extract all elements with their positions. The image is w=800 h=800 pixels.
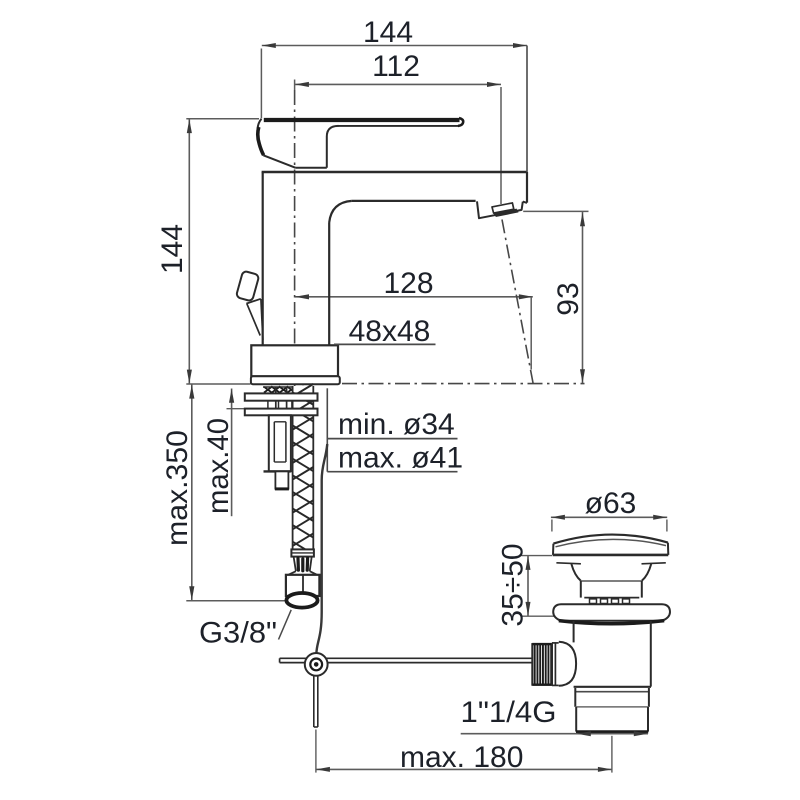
side knob collar line xyxy=(246,299,260,304)
braided supply hose xyxy=(293,384,314,554)
overflow slot band xyxy=(584,598,639,604)
aerator mesh line a xyxy=(494,209,517,214)
dimension 144 top: line xyxy=(262,45,527,47)
spout underside fillet xyxy=(329,201,352,223)
dimension max.40: top arrow xyxy=(229,389,234,403)
drain neck right xyxy=(642,564,651,581)
dimension max180: line xyxy=(316,768,612,770)
sleeve inner bottom tick xyxy=(274,461,286,463)
hole labels vertical leader xyxy=(326,388,328,471)
drain cap washer left xyxy=(556,563,581,564)
handle neck right edge xyxy=(327,126,339,168)
dimension max.350: bottom extension line xyxy=(186,600,296,602)
label max ø41 underline xyxy=(327,471,457,473)
dimension 112: right arrow xyxy=(487,82,501,87)
dimension 144 top: right arrow xyxy=(513,43,527,48)
pop-up rod lower cap xyxy=(314,726,318,728)
mounting washer bar 1 xyxy=(245,393,318,400)
hose nipple left edge xyxy=(294,557,296,572)
side knob body xyxy=(236,271,259,302)
tail lower left xyxy=(575,707,577,732)
handle lobe thick crescent xyxy=(258,127,264,155)
tail upper left xyxy=(574,688,576,707)
stud stub xyxy=(275,471,288,488)
handle blade underside line xyxy=(338,125,459,127)
svg-text:48x48: 48x48 xyxy=(349,315,431,348)
pop-up horizontal rod bottom xyxy=(280,662,533,664)
sleeve inner top tick xyxy=(274,421,286,423)
dimension 35÷50: top arrow xyxy=(526,556,531,570)
tail heavy bottom xyxy=(576,730,648,733)
dimension 93: top extension line xyxy=(523,210,588,212)
dimension 35÷50: bottom arrow xyxy=(526,602,531,616)
tail lower right xyxy=(647,707,649,732)
nut shoulder left xyxy=(288,571,296,575)
drain cylinder right xyxy=(641,581,643,598)
svg-text:128: 128 xyxy=(383,267,433,300)
mounting stud upper right edge xyxy=(286,387,288,422)
dimension 128: line xyxy=(295,296,533,298)
handle blade tip cap xyxy=(458,118,463,126)
dimension max.350: top extension line xyxy=(186,383,250,385)
knob collar bottom xyxy=(552,684,559,686)
body right edge below fillet xyxy=(328,223,330,346)
drain flange heavy bottom arc xyxy=(559,621,664,624)
pop-up tee joint ring xyxy=(310,659,322,671)
water stream dash-dot xyxy=(502,220,534,387)
svg-text:ø63: ø63 xyxy=(585,487,637,520)
svg-text:max.350: max.350 xyxy=(161,430,194,546)
gap vertical c xyxy=(291,401,293,409)
aerator corner to spout xyxy=(523,202,527,203)
dimension 144 left: top arrow xyxy=(187,119,192,133)
dimension 112: right extension line xyxy=(500,87,502,204)
dimension 1-1/4G: line xyxy=(461,733,648,735)
dimension 128: right extension tick xyxy=(530,297,532,370)
dimension ø63: left arrow xyxy=(551,515,565,520)
body top line xyxy=(262,171,527,173)
tail thread line xyxy=(576,706,648,708)
dimension 112: line xyxy=(295,83,501,85)
spout right edge heavy part xyxy=(526,172,528,203)
hose nut facet line xyxy=(302,575,304,596)
side knob stem right xyxy=(261,299,263,340)
dimension 144 top: left extension line xyxy=(260,49,262,119)
svg-text:35÷50: 35÷50 xyxy=(496,543,529,626)
handle blade thick top line xyxy=(264,118,460,122)
dimension max.350: top arrow xyxy=(189,385,194,399)
base block 48x48 xyxy=(251,345,338,376)
dimension 144 left: top extension line xyxy=(186,118,259,120)
svg-text:max. ø41: max. ø41 xyxy=(338,441,463,474)
dimension max.40: line xyxy=(231,389,233,517)
drain knurled knob xyxy=(532,644,552,685)
drain body left edge xyxy=(573,621,575,643)
pop-up rod lower right xyxy=(317,676,319,727)
dimension 128: left arrow xyxy=(295,294,309,299)
dimension 93: bottom arrow xyxy=(580,369,585,383)
drain cap left edge xyxy=(552,544,554,555)
aerator mesh line b xyxy=(496,212,519,217)
crushed seal top line xyxy=(263,386,313,388)
dimension max180: right extension xyxy=(611,736,613,773)
mounting sleeve xyxy=(269,415,291,471)
handle lobe left edge xyxy=(258,119,264,155)
hose nut bottom ellipse xyxy=(286,593,317,608)
dimension max180: left extension xyxy=(315,730,317,773)
drain cap inner arc xyxy=(556,539,667,546)
drain neck left xyxy=(571,564,580,581)
svg-text:max. 180: max. 180 xyxy=(400,741,523,774)
body left edge xyxy=(262,172,264,345)
dimension 93: line xyxy=(582,212,584,383)
drain body bottom xyxy=(574,686,651,688)
pop-up tee joint outer xyxy=(305,653,328,676)
pop-up rod upper xyxy=(316,444,327,654)
dimension max.350: line xyxy=(191,384,193,600)
sleeve inner right xyxy=(285,422,287,462)
dimension 35÷50: top extension xyxy=(522,555,553,557)
dimension 112: left arrow xyxy=(295,82,309,87)
spout underside line xyxy=(352,200,476,202)
hose nut G3/8 xyxy=(286,575,320,596)
faucet centerline dash-dot xyxy=(294,90,296,390)
dimension 144 top: left arrow xyxy=(262,43,276,48)
hose nipple bead b xyxy=(301,559,304,571)
mounting washer bar 2 xyxy=(245,409,318,416)
svg-text:112: 112 xyxy=(372,50,420,83)
pop-up horizontal rod left cap xyxy=(279,658,281,662)
drain cap top arc xyxy=(553,535,668,544)
dimension 35÷50: bottom extension xyxy=(522,615,557,617)
drain body joint line xyxy=(575,691,649,693)
knob collar left xyxy=(551,643,553,686)
mounting stud upper left edge xyxy=(275,387,277,422)
hose crimp collar xyxy=(291,549,314,556)
dimension 1-1/4G: right arrow xyxy=(634,731,648,736)
dimension 35÷50: line xyxy=(527,556,529,617)
hose nipple right edge xyxy=(310,557,312,572)
dimension 93: top arrow xyxy=(580,212,585,226)
hose nipple bead a xyxy=(296,558,300,570)
dimension ø63: right arrow xyxy=(653,515,667,520)
aerator outer housing xyxy=(477,201,523,218)
gap vertical b xyxy=(278,401,280,409)
dimension max.40: extension tick xyxy=(227,408,245,410)
drain cap bottom line xyxy=(553,554,668,557)
crushed seal zigzag a xyxy=(264,387,311,393)
knob housing dome xyxy=(559,642,576,686)
dimension ø63: line xyxy=(551,516,667,518)
label G3/8 leader xyxy=(279,610,292,640)
handle lobe bottom line xyxy=(296,167,327,169)
svg-text:min. ø34: min. ø34 xyxy=(338,408,455,441)
gap vertical a xyxy=(267,401,269,409)
drain cylinder left xyxy=(580,581,582,598)
dimension 128: right arrow xyxy=(519,294,533,299)
crushed seal zigzag b xyxy=(264,387,311,393)
knob collar top xyxy=(552,642,559,644)
sleeve inner left xyxy=(273,422,275,462)
drain body right edge xyxy=(650,621,652,687)
faucet centerline ext above xyxy=(294,80,296,91)
drain cap washer right xyxy=(642,563,666,564)
counter level dash-dot axis xyxy=(342,383,585,385)
dimension 144 left: bottom arrow xyxy=(187,370,192,384)
svg-text:G3/8": G3/8" xyxy=(199,616,277,649)
svg-text:93: 93 xyxy=(552,282,585,315)
dimension 144 left: line xyxy=(188,119,190,384)
base flange xyxy=(251,376,340,384)
svg-text:max.40: max.40 xyxy=(202,418,235,514)
svg-text:144: 144 xyxy=(363,16,413,49)
drain flange lens xyxy=(553,604,670,621)
svg-text:144: 144 xyxy=(156,224,189,274)
dimension max180: right arrow xyxy=(598,767,612,772)
label min ø34 underline xyxy=(327,438,457,440)
pop-up rod lower left xyxy=(313,676,315,727)
drain neck seat line xyxy=(581,580,642,582)
handle lobe bottom diagonal xyxy=(263,155,295,168)
dimension ø63: left extension xyxy=(551,520,553,532)
dimension 1-1/4G: left arrow xyxy=(577,731,591,736)
pop-up tee joint center xyxy=(314,662,319,667)
stud stub heavy bottom xyxy=(275,487,289,490)
label 48x48 underline xyxy=(334,343,436,345)
dimension max180: left arrow xyxy=(316,767,330,772)
knob collar mid xyxy=(554,643,556,686)
dimension max.350: bottom arrow xyxy=(189,586,194,600)
svg-text:1"1/4G: 1"1/4G xyxy=(461,696,557,729)
drain cap right edge xyxy=(667,543,669,555)
side knob stem left xyxy=(247,304,260,336)
nut shoulder right xyxy=(310,571,317,575)
dimension ø63: right extension xyxy=(666,520,668,532)
tail upper right xyxy=(648,688,650,707)
sleeve bottom plate xyxy=(264,470,291,472)
hose crimp mid line xyxy=(291,552,314,554)
pop-up horizontal rod top xyxy=(280,657,533,659)
aerator slot xyxy=(492,203,514,213)
hose nipple bead c xyxy=(306,558,310,570)
spout right end edge xyxy=(526,46,528,203)
